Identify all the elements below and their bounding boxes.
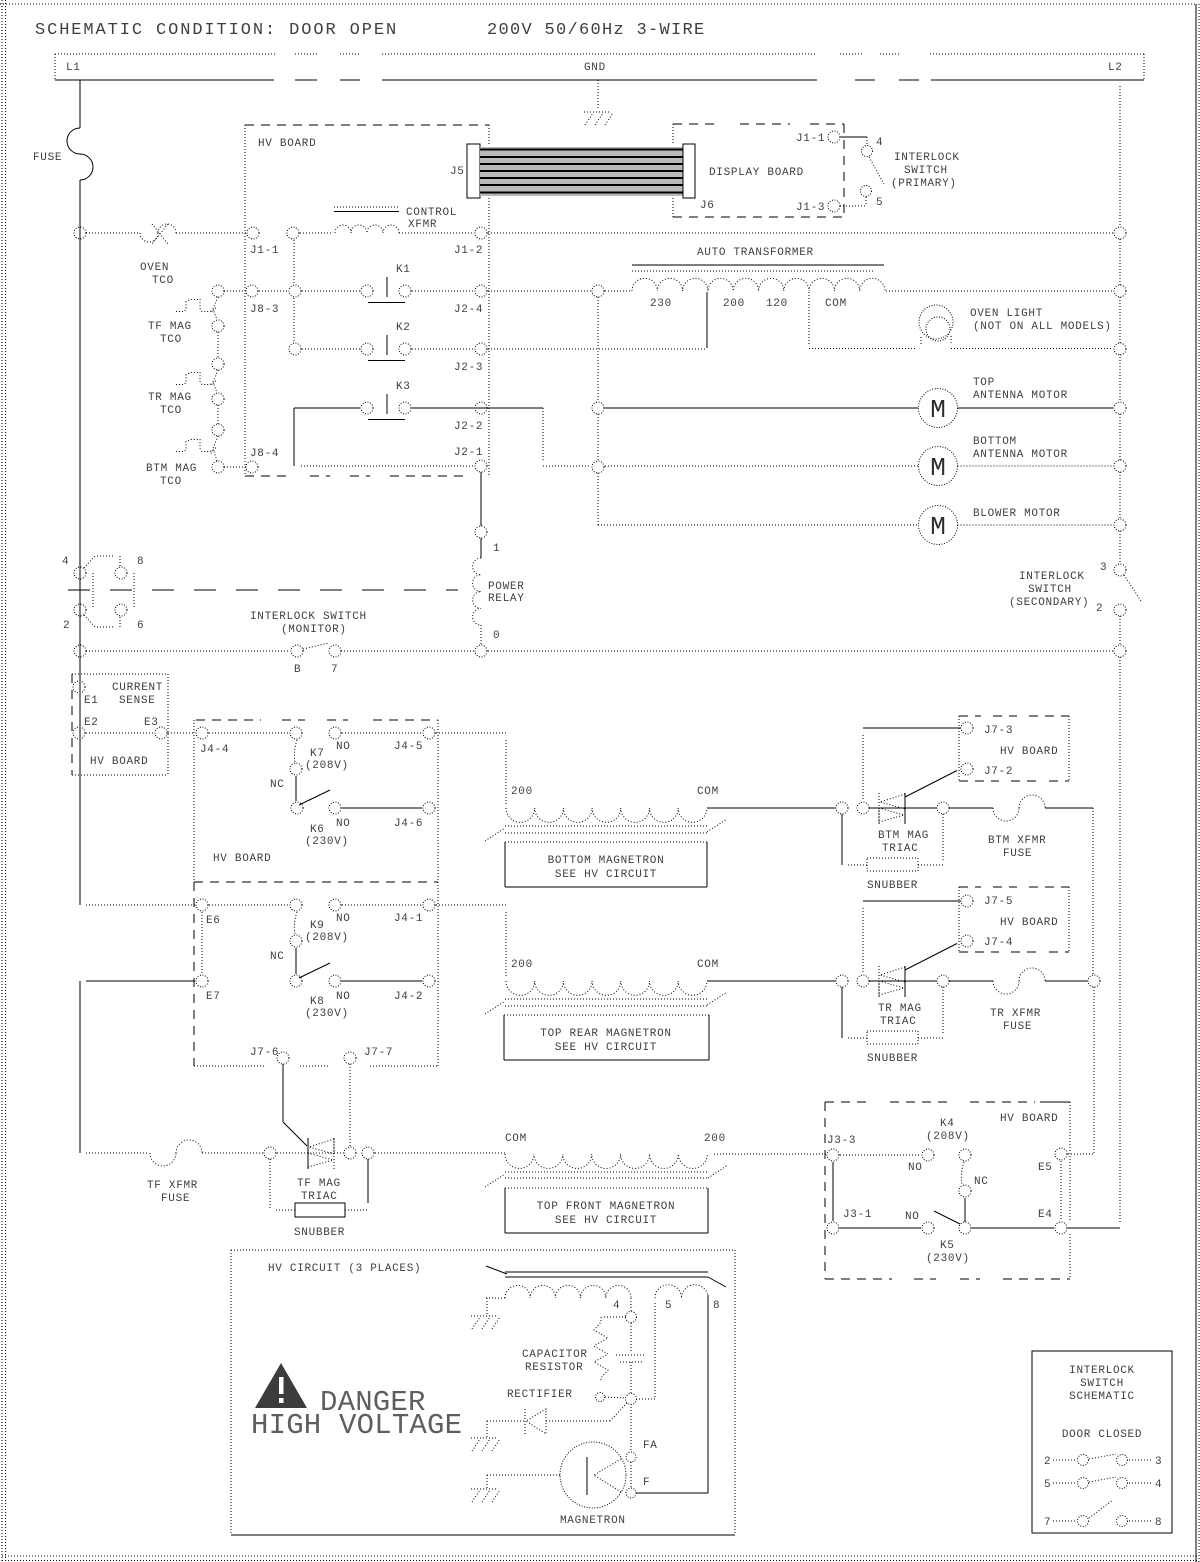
svg-text:TR MAG: TR MAG	[148, 392, 192, 404]
svg-text:120: 120	[766, 298, 788, 310]
svg-text:SWITCH: SWITCH	[1080, 1378, 1124, 1390]
svg-text:J2-2: J2-2	[454, 421, 483, 433]
svg-text:TCO: TCO	[160, 405, 182, 417]
svg-text:200: 200	[723, 298, 745, 310]
svg-text:L1: L1	[66, 62, 81, 74]
svg-text:J2-1: J2-1	[454, 447, 483, 459]
svg-text:SCHEMATIC CONDITION: DOOR OPEN: SCHEMATIC CONDITION: DOOR OPEN	[35, 21, 398, 40]
svg-text:K8: K8	[310, 996, 325, 1008]
svg-text:POWER: POWER	[488, 581, 525, 593]
svg-text:NO: NO	[336, 818, 351, 830]
svg-text:TR MAG: TR MAG	[878, 1003, 922, 1015]
svg-text:5: 5	[876, 197, 883, 209]
svg-text:(230V): (230V)	[926, 1253, 970, 1265]
svg-text:TRIAC: TRIAC	[880, 1016, 917, 1028]
svg-text:8: 8	[1155, 1517, 1162, 1529]
svg-text:SNUBBER: SNUBBER	[294, 1227, 345, 1239]
svg-text:OVEN: OVEN	[140, 262, 169, 274]
svg-text:(230V): (230V)	[305, 1008, 349, 1020]
svg-text:E2: E2	[84, 717, 99, 729]
svg-text:E5: E5	[1038, 1162, 1053, 1174]
svg-text:3: 3	[1100, 562, 1107, 574]
svg-text:200V 50/60Hz 3-WIRE: 200V 50/60Hz 3-WIRE	[487, 21, 706, 40]
svg-text:TRIAC: TRIAC	[882, 843, 919, 855]
svg-text:(208V): (208V)	[926, 1131, 970, 1143]
svg-text:E6: E6	[206, 915, 221, 927]
svg-text:NC: NC	[270, 951, 285, 963]
svg-text:XFMR: XFMR	[408, 219, 437, 231]
svg-text:FUSE: FUSE	[161, 1193, 190, 1205]
svg-text:BLOWER MOTOR: BLOWER MOTOR	[973, 508, 1061, 520]
svg-text:K3: K3	[396, 381, 411, 393]
svg-text:NO: NO	[905, 1211, 920, 1223]
svg-text:COM: COM	[505, 1133, 527, 1145]
svg-text:2: 2	[63, 620, 70, 632]
svg-text:NO: NO	[336, 913, 351, 925]
svg-text:COM: COM	[697, 959, 719, 971]
svg-text:INTERLOCK: INTERLOCK	[1069, 1365, 1135, 1377]
svg-text:BTM MAG: BTM MAG	[878, 830, 929, 842]
svg-text:SWITCH: SWITCH	[1028, 584, 1072, 596]
svg-text:HV BOARD: HV BOARD	[213, 853, 271, 865]
svg-text:K5: K5	[940, 1240, 955, 1252]
svg-text:(208V): (208V)	[305, 760, 349, 772]
svg-text:HIGH VOLTAGE: HIGH VOLTAGE	[251, 1409, 462, 1442]
svg-text:J7-5: J7-5	[984, 896, 1013, 908]
svg-text:8: 8	[713, 1300, 720, 1312]
svg-text:TOP FRONT MAGNETRON: TOP FRONT MAGNETRON	[537, 1201, 676, 1213]
svg-text:J3-1: J3-1	[843, 1209, 872, 1221]
svg-text:BOTTOM: BOTTOM	[973, 436, 1017, 448]
svg-text:TCO: TCO	[160, 334, 182, 346]
svg-text:INTERLOCK: INTERLOCK	[1019, 571, 1085, 583]
svg-text:HV BOARD: HV BOARD	[1000, 1113, 1058, 1125]
svg-text:J4-6: J4-6	[394, 818, 423, 830]
svg-text:J4-4: J4-4	[200, 744, 229, 756]
svg-text:COM: COM	[825, 298, 847, 310]
svg-text:4: 4	[1155, 1479, 1162, 1491]
svg-text:3: 3	[1155, 1456, 1162, 1468]
svg-text:(208V): (208V)	[305, 932, 349, 944]
svg-text:5: 5	[1044, 1479, 1051, 1491]
svg-text:SNUBBER: SNUBBER	[867, 1053, 918, 1065]
svg-text:L2: L2	[1108, 62, 1123, 74]
svg-text:J1-1: J1-1	[250, 245, 279, 257]
svg-text:J5: J5	[450, 166, 465, 178]
svg-text:2: 2	[1044, 1456, 1051, 1468]
svg-text:CAPACITOR: CAPACITOR	[522, 1349, 588, 1361]
svg-text:1: 1	[493, 543, 500, 555]
svg-text:4: 4	[62, 556, 69, 568]
svg-text:200: 200	[704, 1133, 726, 1145]
svg-text:(MONITOR): (MONITOR)	[281, 624, 347, 636]
svg-text:HV CIRCUIT (3 PLACES): HV CIRCUIT (3 PLACES)	[268, 1263, 421, 1275]
svg-text:AUTO TRANSFORMER: AUTO TRANSFORMER	[697, 247, 814, 259]
svg-text:K7: K7	[310, 748, 325, 760]
svg-text:RESISTOR: RESISTOR	[525, 1362, 583, 1374]
svg-text:7: 7	[331, 664, 338, 676]
svg-text:J8-3: J8-3	[250, 304, 279, 316]
svg-text:7: 7	[1044, 1517, 1051, 1529]
svg-text:SCHEMATIC: SCHEMATIC	[1069, 1391, 1135, 1403]
svg-text:TOP REAR MAGNETRON: TOP REAR MAGNETRON	[540, 1028, 671, 1040]
svg-text:DISPLAY BOARD: DISPLAY BOARD	[709, 167, 804, 179]
svg-text:4: 4	[876, 137, 883, 149]
svg-text:SEE HV CIRCUIT: SEE HV CIRCUIT	[555, 1042, 657, 1054]
svg-text:5: 5	[665, 1300, 672, 1312]
svg-text:B: B	[294, 664, 301, 676]
svg-text:MAGNETRON: MAGNETRON	[560, 1515, 626, 1527]
svg-text:HV BOARD: HV BOARD	[1000, 746, 1058, 758]
svg-text:(PRIMARY): (PRIMARY)	[891, 178, 957, 190]
svg-text:230: 230	[650, 298, 672, 310]
svg-text:J7-6: J7-6	[250, 1047, 279, 1059]
svg-text:SNUBBER: SNUBBER	[867, 880, 918, 892]
svg-text:M: M	[930, 512, 946, 542]
svg-text:K2: K2	[396, 322, 411, 334]
svg-text:E4: E4	[1038, 1209, 1053, 1221]
svg-text:M: M	[930, 395, 946, 425]
svg-text:J4-2: J4-2	[394, 991, 423, 1003]
svg-text:TR XFMR: TR XFMR	[990, 1008, 1041, 1020]
svg-text:FUSE: FUSE	[33, 152, 62, 164]
svg-text:RELAY: RELAY	[488, 593, 525, 605]
svg-text:J7-7: J7-7	[364, 1047, 393, 1059]
svg-text:BOTTOM MAGNETRON: BOTTOM MAGNETRON	[548, 855, 665, 867]
svg-text:6: 6	[137, 620, 144, 632]
svg-text:SEE HV CIRCUIT: SEE HV CIRCUIT	[555, 869, 657, 881]
svg-text:CURRENT: CURRENT	[112, 682, 163, 694]
svg-text:NC: NC	[270, 779, 285, 791]
svg-text:SEE HV CIRCUIT: SEE HV CIRCUIT	[555, 1215, 657, 1227]
svg-text:J7-2: J7-2	[984, 766, 1013, 778]
svg-text:OVEN LIGHT: OVEN LIGHT	[970, 308, 1043, 320]
svg-text:J3-3: J3-3	[827, 1135, 856, 1147]
svg-text:FA: FA	[643, 1440, 658, 1452]
svg-text:K1: K1	[396, 264, 411, 276]
svg-text:INTERLOCK SWITCH: INTERLOCK SWITCH	[250, 611, 367, 623]
svg-text:HV BOARD: HV BOARD	[1000, 917, 1058, 929]
svg-text:NC: NC	[974, 1176, 989, 1188]
svg-text:BTM MAG: BTM MAG	[146, 463, 197, 475]
svg-text:J4-1: J4-1	[394, 913, 423, 925]
svg-text:K9: K9	[310, 920, 325, 932]
svg-text:J2-4: J2-4	[454, 304, 483, 316]
svg-text:(230V): (230V)	[305, 836, 349, 848]
svg-text:TF MAG: TF MAG	[148, 321, 192, 333]
svg-text:J1-2: J1-2	[454, 245, 483, 257]
svg-text:GND: GND	[584, 62, 606, 74]
svg-text:CONTROL: CONTROL	[406, 207, 457, 219]
svg-text:TCO: TCO	[160, 476, 182, 488]
svg-text:J8-4: J8-4	[250, 448, 279, 460]
svg-text:TRIAC: TRIAC	[301, 1191, 338, 1203]
svg-text:HV BOARD: HV BOARD	[90, 756, 148, 768]
svg-text:2: 2	[1096, 603, 1103, 615]
svg-text:SWITCH: SWITCH	[904, 165, 948, 177]
svg-text:200: 200	[511, 786, 533, 798]
svg-text:(NOT ON ALL MODELS): (NOT ON ALL MODELS)	[973, 321, 1112, 333]
svg-text:TF XFMR: TF XFMR	[147, 1180, 198, 1192]
svg-text:FUSE: FUSE	[1003, 848, 1032, 860]
svg-text:K4: K4	[940, 1118, 955, 1130]
svg-text:ANTENNA MOTOR: ANTENNA MOTOR	[973, 449, 1068, 461]
svg-text:J6: J6	[700, 200, 715, 212]
svg-text:NO: NO	[336, 741, 351, 753]
svg-text:J7-4: J7-4	[984, 937, 1013, 949]
svg-text:E7: E7	[206, 991, 221, 1003]
svg-text:TCO: TCO	[152, 275, 174, 287]
svg-text:ANTENNA MOTOR: ANTENNA MOTOR	[973, 390, 1068, 402]
svg-text:E1: E1	[84, 695, 99, 707]
svg-text:INTERLOCK: INTERLOCK	[894, 152, 960, 164]
svg-text:NO: NO	[336, 991, 351, 1003]
svg-text:8: 8	[137, 556, 144, 568]
svg-text:J7-3: J7-3	[984, 725, 1013, 737]
svg-text:SENSE: SENSE	[119, 695, 156, 707]
svg-text:F: F	[643, 1477, 650, 1489]
svg-text:TF MAG: TF MAG	[297, 1178, 341, 1190]
svg-text:J4-5: J4-5	[394, 741, 423, 753]
svg-text:RECTIFIER: RECTIFIER	[507, 1389, 573, 1401]
svg-text:NO: NO	[908, 1162, 923, 1174]
svg-text:HV BOARD: HV BOARD	[258, 138, 316, 150]
svg-text:FUSE: FUSE	[1003, 1021, 1032, 1033]
svg-text:M: M	[930, 453, 946, 483]
svg-text:COM: COM	[697, 786, 719, 798]
svg-text:(SECONDARY): (SECONDARY)	[1009, 597, 1089, 609]
svg-text:BTM XFMR: BTM XFMR	[988, 835, 1046, 847]
svg-text:E3: E3	[144, 717, 159, 729]
svg-text:K6: K6	[310, 824, 325, 836]
svg-text:DOOR CLOSED: DOOR CLOSED	[1062, 1429, 1142, 1441]
svg-text:4: 4	[613, 1300, 620, 1312]
svg-text:TOP: TOP	[973, 377, 995, 389]
svg-text:0: 0	[493, 630, 500, 642]
svg-text:J2-3: J2-3	[454, 362, 483, 374]
svg-text:J1-1: J1-1	[796, 133, 825, 145]
svg-text:200: 200	[511, 959, 533, 971]
svg-text:J1-3: J1-3	[796, 202, 825, 214]
